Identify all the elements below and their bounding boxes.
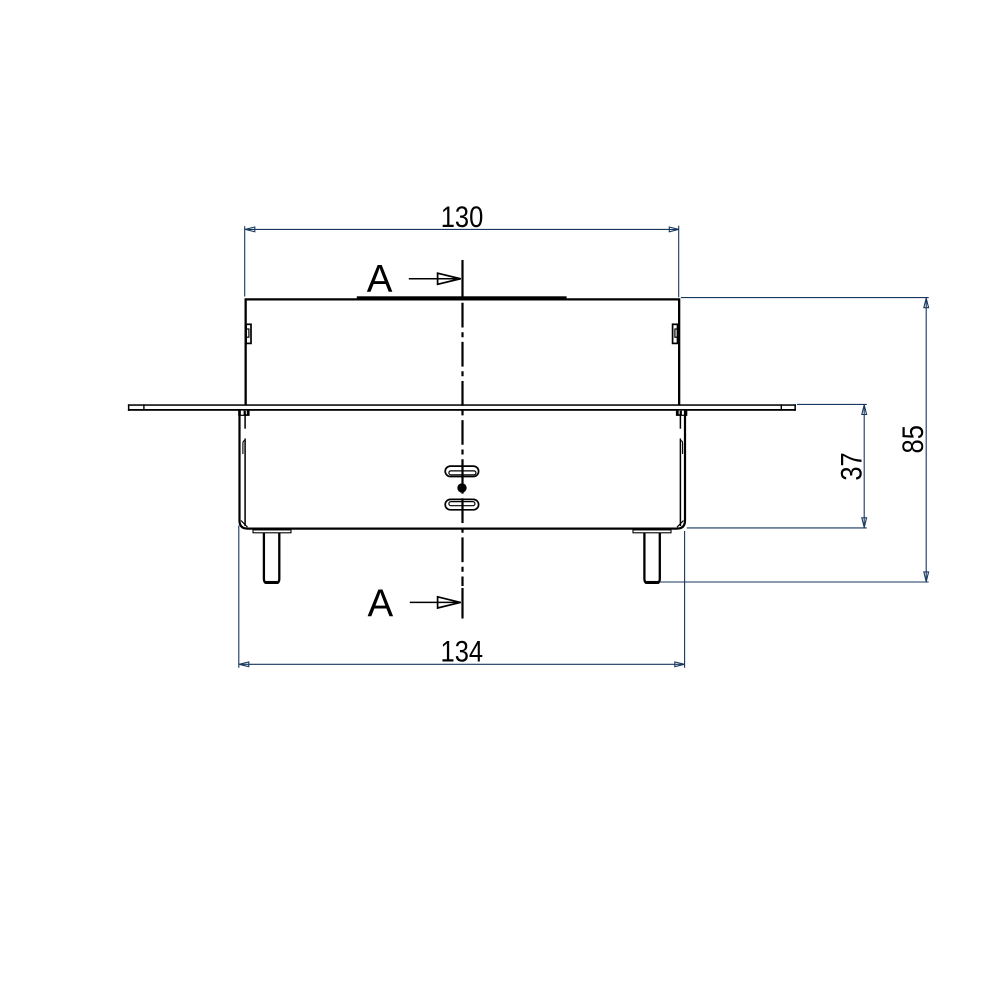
svg-text:134: 134 — [441, 635, 484, 668]
svg-text:85: 85 — [896, 425, 929, 453]
svg-text:130: 130 — [441, 200, 484, 233]
svg-text:A: A — [367, 258, 393, 301]
svg-text:37: 37 — [835, 452, 868, 480]
svg-text:A: A — [367, 582, 393, 625]
